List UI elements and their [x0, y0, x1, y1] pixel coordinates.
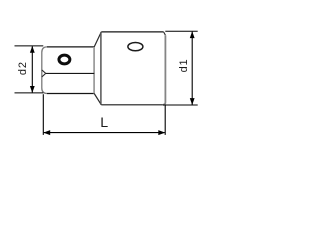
small body tip notch [42, 70, 46, 77]
small square-drive body: top edge [47, 46, 94, 48]
small square-drive body: right base edge [93, 47, 95, 94]
L right extension line [164, 106, 166, 135]
detent hole on large body [128, 42, 143, 50]
transition chamfer top [94, 32, 101, 47]
large body: top edge [101, 31, 163, 33]
L arrow right [158, 130, 165, 135]
d1 arrow up [190, 31, 195, 38]
d1 arrow down [190, 98, 195, 105]
d2 dimension line [31, 46, 33, 92]
L left extension line [42, 94, 44, 135]
large body: bottom edge [101, 104, 163, 106]
socket adapter technical drawing [0, 0, 214, 170]
d1 dimension line [191, 32, 193, 105]
small body mid edge line between faces [46, 72, 94, 74]
d2 bottom extension line [15, 92, 44, 94]
d2 top extension line [15, 45, 44, 47]
svg-text:d1: d1 [178, 59, 190, 73]
d2 arrow down [30, 86, 35, 93]
d1 top extension line [165, 30, 197, 32]
d1 bottom extension line [163, 104, 198, 106]
L arrow left [43, 130, 50, 135]
svg-text:d2: d2 [17, 61, 29, 75]
d2 arrow up [30, 46, 35, 53]
large body: right edge [163, 35, 166, 105]
large body: front face edge [100, 32, 102, 104]
svg-text:L: L [100, 115, 108, 131]
small square-drive body: bottom edge [47, 93, 94, 95]
L dimension line [44, 132, 165, 134]
small square-drive body: left edge with rounded corners [42, 47, 47, 94]
large body: top-right chamfer [164, 32, 166, 35]
transition chamfer bottom [94, 94, 101, 105]
detent ball hole on small drive [59, 55, 70, 64]
